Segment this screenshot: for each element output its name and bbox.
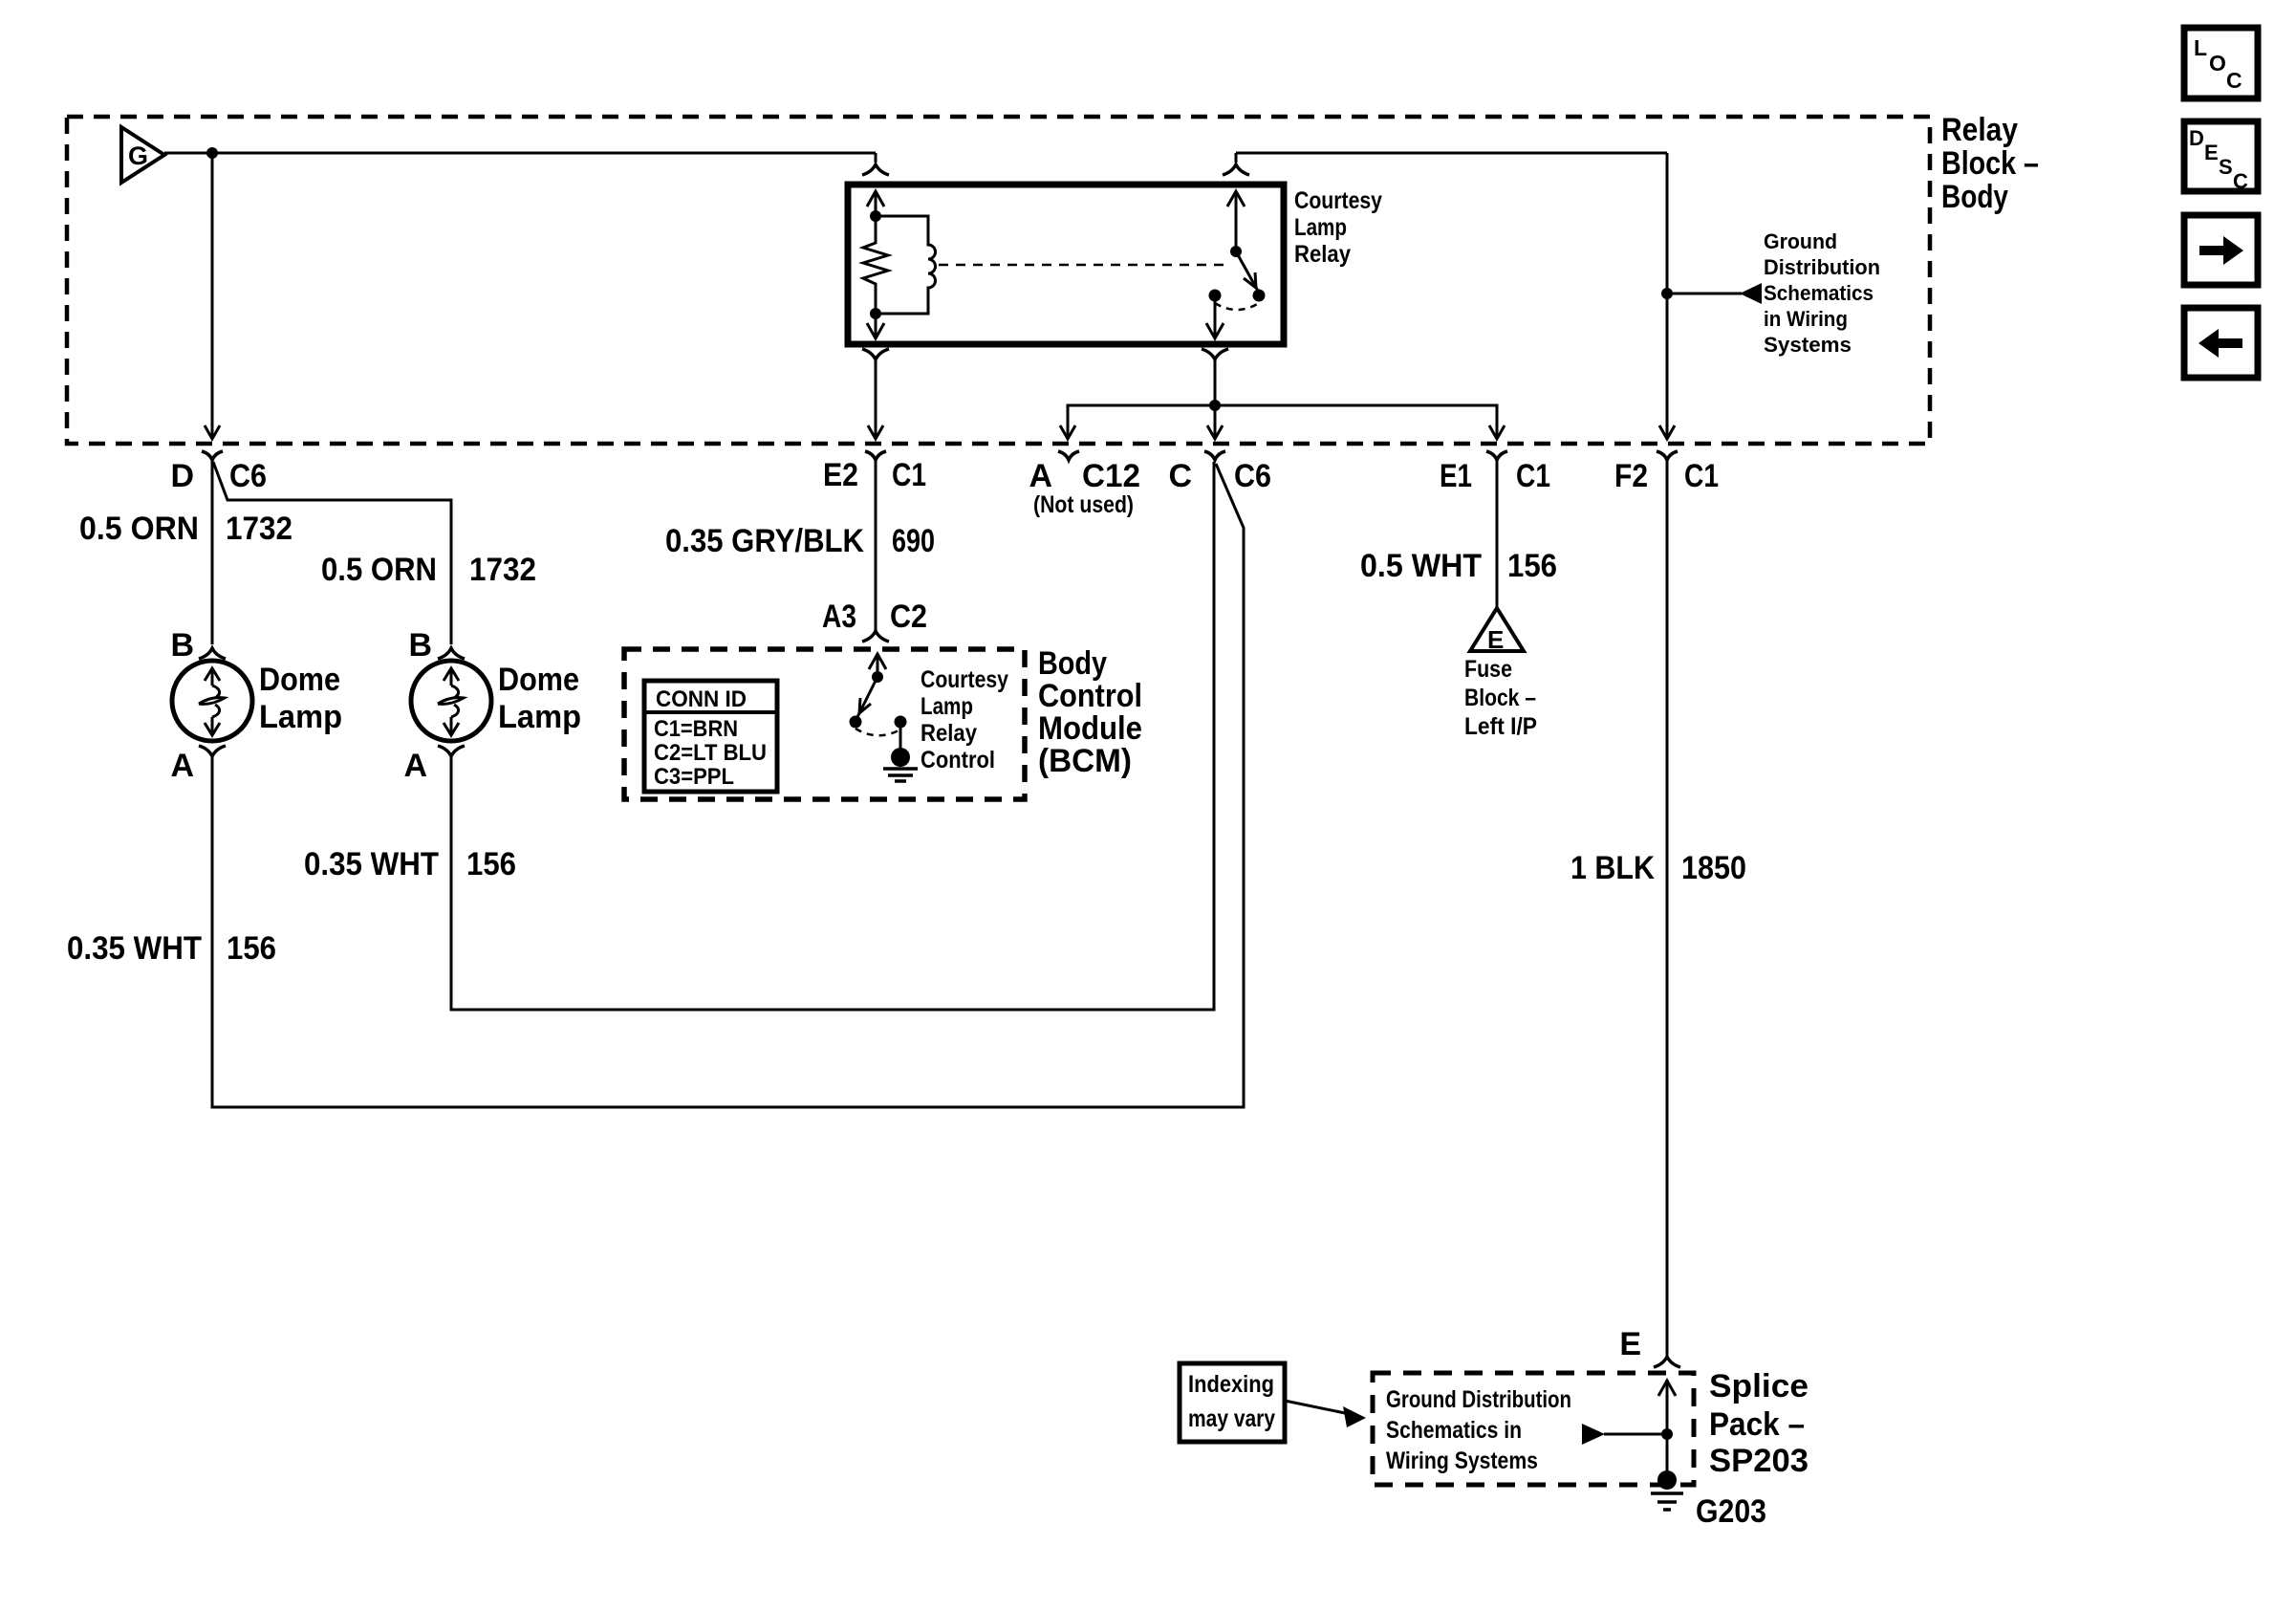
svg-text:156: 156	[227, 930, 276, 967]
wire: switch output down to branch junction	[1214, 360, 1217, 439]
relay coil bottom pin arrow (down)	[867, 314, 884, 338]
svg-text:0.35 WHT: 0.35 WHT	[67, 930, 202, 967]
svg-text:C6: C6	[229, 458, 267, 494]
svg-text:156: 156	[1507, 548, 1557, 584]
svg-text:Pack –: Pack –	[1709, 1406, 1805, 1443]
dashed throw arc (BCM)	[856, 729, 900, 735]
svg-text:CONN ID: CONN ID	[656, 686, 747, 712]
label Courtesy Lamp Relay	[1294, 187, 1382, 268]
svg-text:B: B	[408, 627, 432, 664]
connector E1 C1 chevron	[1486, 451, 1507, 460]
nav icon DESC	[2184, 121, 2258, 193]
svg-text:SP203: SP203	[1709, 1443, 1809, 1479]
svg-text:C12: C12	[1082, 458, 1140, 494]
svg-text:E1: E1	[1440, 458, 1472, 494]
wire: relay switch pin drop	[1235, 153, 1238, 163]
connector chevron below relay coil pin (E2 side)	[862, 349, 889, 359]
svg-text:C1: C1	[1684, 458, 1719, 494]
svg-text:Distribution: Distribution	[1764, 255, 1880, 279]
svg-text:0.5 WHT: 0.5 WHT	[1360, 548, 1482, 584]
wire: C6 branch to dome lamp 2 B	[213, 462, 451, 644]
svg-text:C: C	[2226, 68, 2242, 93]
connector chevron above relay coil pin	[862, 164, 889, 175]
svg-text:Body: Body	[1941, 179, 2008, 215]
label Ground Distribution Schematics in Wiring Systems (splice)	[1386, 1386, 1571, 1474]
svg-text:L: L	[2194, 35, 2207, 60]
nav icon LOC	[2184, 28, 2258, 98]
connector E2 C1 chevron	[865, 451, 886, 460]
svg-text:Fuse: Fuse	[1464, 656, 1512, 683]
svg-text:B: B	[170, 627, 194, 664]
svg-text:Lamp: Lamp	[921, 693, 973, 720]
svg-text:0.5 ORN: 0.5 ORN	[79, 511, 199, 547]
svg-text:1 BLK: 1 BLK	[1570, 850, 1655, 886]
label Body Control Module (BCM)	[1038, 645, 1142, 779]
indexing may vary note box	[1180, 1363, 1285, 1442]
wire label 1 BLK 1850	[1570, 850, 1746, 886]
svg-text:Ground Distribution: Ground Distribution	[1386, 1386, 1571, 1413]
svg-text:Dome: Dome	[259, 662, 340, 698]
BCM switch pivot node	[872, 671, 883, 683]
svg-text:G: G	[128, 142, 148, 170]
connector chevron above relay switch pin	[1223, 164, 1249, 175]
connector A C12 chevron	[1058, 451, 1079, 460]
svg-text:C: C	[2233, 169, 2248, 193]
label Relay Block - Body	[1941, 112, 2039, 215]
junction node on F2 wire	[1661, 288, 1673, 299]
relay coil bottom node	[870, 308, 881, 319]
resistor (relay coil resistance)	[863, 216, 888, 314]
svg-text:(Not used): (Not used)	[1033, 491, 1134, 518]
svg-text:Block –: Block –	[1941, 145, 2039, 182]
svg-text:S: S	[2219, 155, 2233, 179]
svg-text:0.35 WHT: 0.35 WHT	[304, 846, 439, 882]
connector D C6 chevron	[202, 451, 223, 460]
svg-text:O: O	[2209, 51, 2226, 76]
connector chevron at BCM A3/C2	[862, 631, 889, 642]
power feed symbol G	[121, 127, 164, 183]
relay switch pivot node	[1230, 246, 1242, 257]
svg-text:E: E	[1487, 625, 1504, 654]
dome lamp 1	[172, 661, 252, 741]
dashed throw arc	[1215, 303, 1259, 310]
svg-text:C: C	[1168, 458, 1192, 494]
svg-text:F2: F2	[1614, 458, 1648, 494]
svg-text:Control: Control	[921, 747, 995, 773]
wire label 0.5 ORN 1732 (lamp 2)	[321, 552, 536, 588]
connector chevron below lamp 2	[438, 746, 465, 756]
BCM switch contact node	[895, 716, 907, 729]
BCM switch blade end node	[850, 716, 862, 729]
svg-text:A: A	[403, 748, 427, 784]
svg-text:E: E	[2204, 141, 2219, 164]
wire: contact to internal ground	[899, 722, 902, 751]
nav icon right arrow	[2184, 215, 2258, 285]
relay coil pin arrow (up)	[867, 191, 884, 216]
connector chevron below relay switch pin (C side)	[1202, 349, 1228, 359]
arrowhead at C boundary	[1207, 425, 1223, 439]
wire: E1 to fuse block	[1496, 461, 1499, 608]
splice pointer arrowhead	[1582, 1424, 1605, 1445]
dome lamp 2	[411, 661, 491, 741]
svg-text:in Wiring: in Wiring	[1764, 307, 1848, 331]
svg-text:A: A	[170, 748, 194, 784]
indexing pointer arrowhead	[1343, 1406, 1366, 1427]
svg-text:(BCM): (BCM)	[1038, 743, 1132, 779]
wire: junction down to connector D	[211, 153, 214, 439]
inductor coil (parallel branch)	[876, 216, 936, 314]
svg-text:Schematics in: Schematics in	[1386, 1417, 1522, 1444]
svg-text:A3: A3	[822, 599, 856, 635]
svg-text:Schematics: Schematics	[1764, 281, 1874, 305]
relay switch closed contact node	[1209, 290, 1222, 302]
wire: D to dome lamp 1 B	[211, 461, 214, 644]
relay coil top node	[870, 210, 881, 222]
svg-text:Lamp: Lamp	[259, 699, 342, 735]
svg-text:Courtesy: Courtesy	[921, 666, 1008, 693]
splice pointer wire	[1604, 1433, 1667, 1436]
svg-text:Control: Control	[1038, 678, 1142, 714]
wire label 0.35 WHT 156 (lamp 1)	[67, 930, 276, 967]
ground symbol (BCM)	[883, 769, 918, 781]
arrowhead at A boundary	[1060, 425, 1075, 439]
indexing pointer wire	[1285, 1401, 1350, 1414]
svg-text:1732: 1732	[226, 511, 292, 547]
svg-text:C2: C2	[890, 599, 927, 635]
svg-text:Body: Body	[1038, 645, 1107, 682]
svg-text:Wiring Systems: Wiring Systems	[1386, 1448, 1538, 1474]
connector chevron at splice pack E	[1654, 1357, 1680, 1367]
body control module dashed box	[624, 649, 1025, 799]
svg-text:A: A	[1029, 458, 1052, 494]
svg-text:may vary: may vary	[1188, 1405, 1275, 1432]
wire: E2 to BCM A3	[875, 461, 877, 630]
svg-text:Ground: Ground	[1764, 229, 1837, 253]
wire: relay switch feed (horizontal to F2 drop)	[1236, 152, 1667, 155]
svg-text:Relay: Relay	[1294, 241, 1351, 268]
connector chevron above lamp 1	[199, 648, 226, 659]
svg-text:Relay: Relay	[1941, 112, 2018, 148]
label Dome Lamp (lamp 1)	[259, 662, 342, 735]
wire label 0.35 GRY/BLK 690	[665, 523, 935, 559]
svg-text:Relay: Relay	[921, 720, 977, 747]
wire: F2 to splice pack E (1 BLK 1850)	[1666, 461, 1669, 1356]
internal ground dot	[891, 748, 910, 767]
svg-text:C6: C6	[1234, 458, 1271, 494]
CONN ID table	[644, 681, 777, 792]
svg-text:Left I/P: Left I/P	[1464, 713, 1537, 740]
relay switch output arrow (down)	[1206, 295, 1224, 338]
nav icon left arrow	[2184, 308, 2258, 378]
wire label 0.5 ORN 1732 (lamp 1)	[79, 511, 292, 547]
splice pin arrow (up)	[1658, 1381, 1676, 1434]
svg-text:1732: 1732	[469, 552, 536, 588]
dashed actuation link coil to switch	[939, 264, 1229, 267]
wire: relay coil pin drop	[875, 153, 877, 163]
label Dome Lamp (lamp 2)	[498, 662, 581, 735]
ground distribution pointer arrowhead	[1740, 283, 1762, 304]
label Courtesy Lamp Relay Control	[921, 666, 1008, 773]
connector chevron below lamp 1	[199, 746, 226, 756]
connector F2 C1 chevron	[1657, 451, 1678, 460]
svg-text:Systems: Systems	[1764, 333, 1852, 357]
svg-text:C1: C1	[1516, 458, 1550, 494]
BCM switch blade with arrowhead	[856, 677, 877, 719]
label Ground Distribution Schematics in Wiring Systems	[1764, 229, 1880, 357]
svg-text:Block –: Block –	[1464, 685, 1536, 711]
svg-text:0.35 GRY/BLK: 0.35 GRY/BLK	[665, 523, 864, 559]
arrowhead at F2 boundary	[1659, 425, 1675, 439]
arrowhead at D boundary	[205, 425, 220, 439]
svg-text:0.5 ORN: 0.5 ORN	[321, 552, 437, 588]
ground dot G203	[1657, 1470, 1677, 1490]
svg-text:690: 690	[892, 523, 935, 559]
svg-text:Splice: Splice	[1709, 1368, 1809, 1404]
label Splice Pack - SP203	[1709, 1368, 1809, 1479]
wire label 0.35 WHT 156 (lamp 2)	[304, 846, 516, 882]
wire: junction to ground G203	[1666, 1434, 1669, 1474]
junction node above D	[206, 147, 218, 159]
courtesy lamp relay box	[848, 185, 1284, 344]
wire: lamp 1 A return to C6	[212, 464, 1244, 1107]
relay switch pin arrow (up)	[1227, 191, 1245, 251]
ground symbol G203	[1651, 1493, 1683, 1510]
splice junction node	[1661, 1428, 1673, 1440]
branch junction node	[1209, 400, 1221, 411]
svg-text:G203: G203	[1696, 1493, 1766, 1530]
fuse block triangle E	[1470, 608, 1524, 654]
wire: branch horizontal A-to-E1	[1068, 405, 1497, 439]
svg-text:C1=BRN: C1=BRN	[654, 716, 738, 742]
svg-text:Lamp: Lamp	[498, 699, 581, 735]
wire: right vertical to F2	[1666, 153, 1669, 439]
svg-text:156: 156	[466, 846, 516, 882]
arrowhead at E1 boundary	[1489, 425, 1505, 439]
svg-text:Indexing: Indexing	[1188, 1371, 1274, 1398]
wire label 0.5 WHT 156	[1360, 548, 1557, 584]
svg-text:Lamp: Lamp	[1294, 214, 1347, 241]
wire: relay coil pin to E2 boundary	[875, 359, 877, 439]
connector C C6 chevron	[1204, 451, 1225, 460]
svg-text:1850: 1850	[1681, 850, 1746, 886]
wire: lamp 2 A return to C	[451, 462, 1214, 1010]
relay block - body dashed boundary box	[67, 117, 1930, 444]
svg-text:C2=LT BLU: C2=LT BLU	[654, 740, 767, 766]
svg-text:Courtesy: Courtesy	[1294, 187, 1382, 214]
relay switch blade with arrowhead	[1236, 251, 1259, 293]
wire: G feed to relay coil pin (horizontal)	[164, 152, 876, 155]
ground distribution pointer wire	[1667, 293, 1742, 295]
relay switch blade end node	[1253, 290, 1266, 302]
svg-text:C3=PPL: C3=PPL	[654, 764, 734, 790]
svg-text:E: E	[1619, 1326, 1641, 1362]
svg-text:Dome: Dome	[498, 662, 579, 698]
splice pack dashed box	[1373, 1373, 1694, 1485]
BCM driver pin arrow (up)	[869, 654, 886, 677]
svg-text:E2: E2	[823, 457, 858, 493]
connector chevron above lamp 2	[438, 648, 465, 659]
label Fuse Block - Left I/P	[1464, 656, 1537, 740]
svg-text:D: D	[170, 458, 194, 494]
arrowhead at E2 boundary	[868, 425, 883, 439]
svg-text:D: D	[2189, 126, 2204, 150]
svg-text:C1: C1	[892, 457, 926, 493]
svg-text:Module: Module	[1038, 710, 1142, 747]
